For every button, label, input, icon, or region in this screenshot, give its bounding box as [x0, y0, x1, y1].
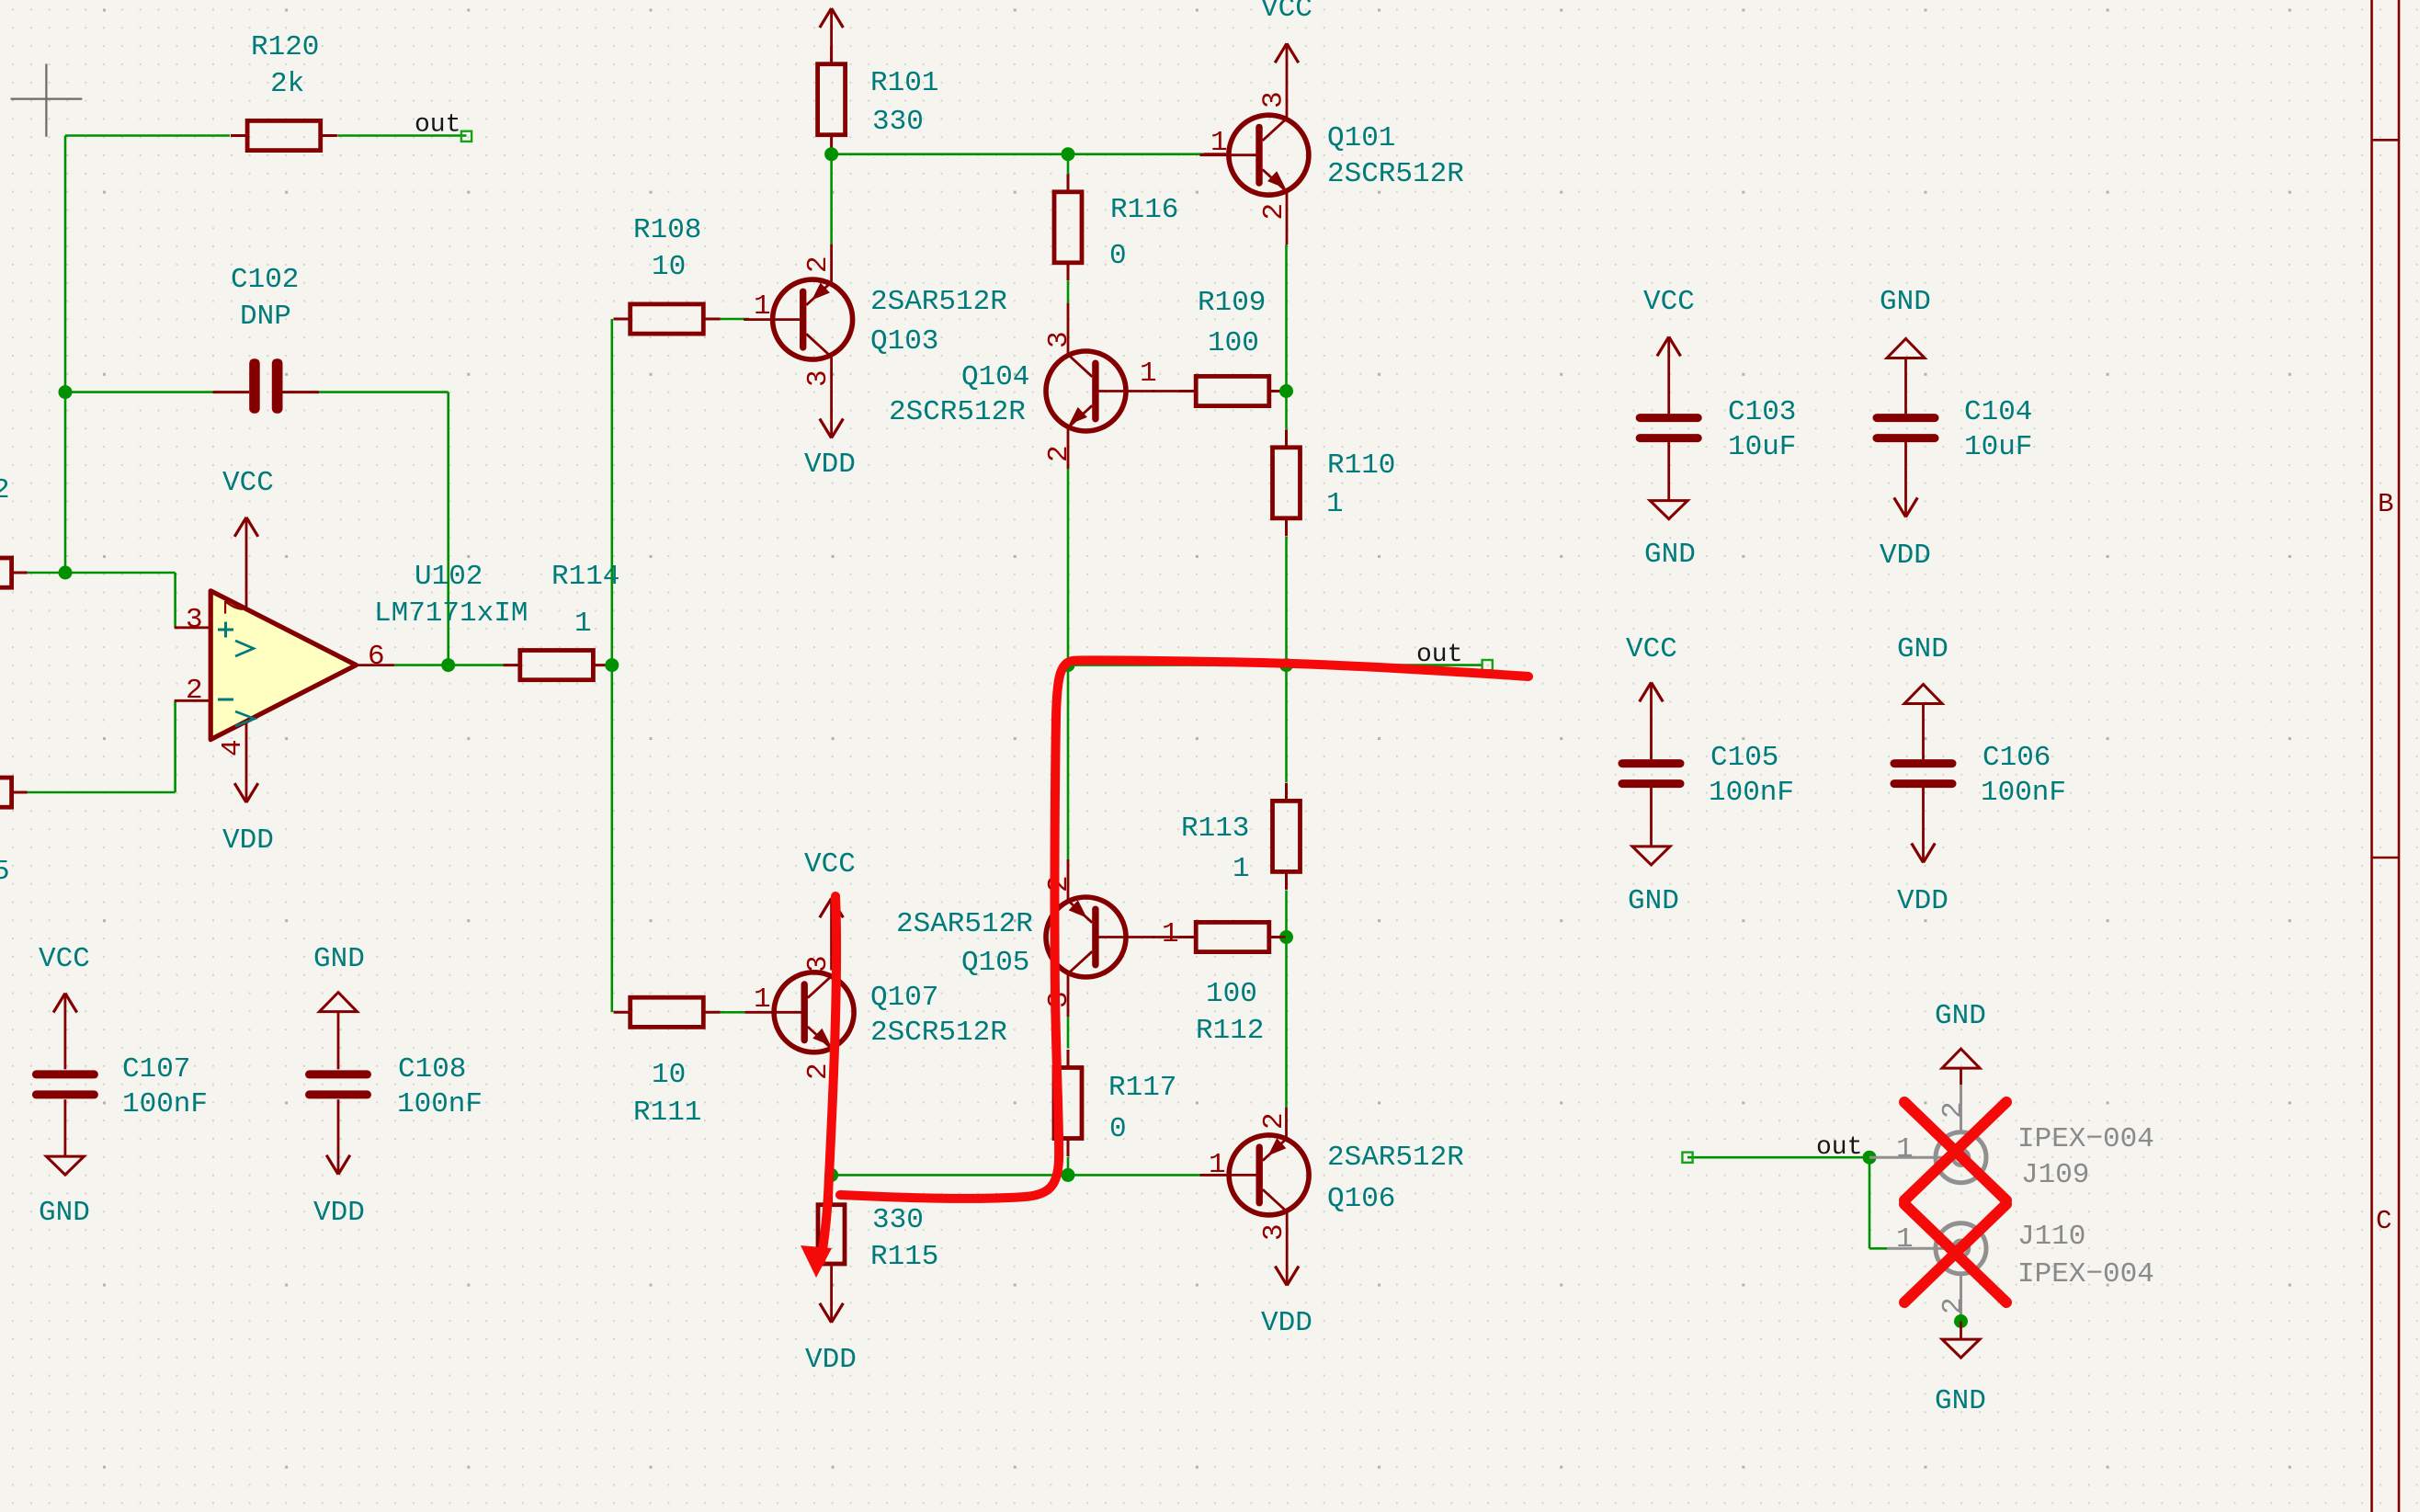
- svg-text:10uF: 10uF: [1728, 431, 1796, 463]
- resistor R114: [504, 651, 610, 680]
- wire R101 bottom to junction row: [830, 153, 833, 244]
- wire end square mid out: [1483, 660, 1493, 670]
- svg-text:100nF: 100nF: [1709, 777, 1794, 809]
- VCC power arrow (C105): [1640, 682, 1664, 701]
- svg-text:U102: U102: [415, 561, 483, 593]
- svg-text:R116: R116: [1110, 194, 1178, 226]
- svg-text:1: 1: [1896, 1133, 1914, 1165]
- ground symbol up (J109): [1942, 1049, 1980, 1085]
- wire Q105 collector down to R117: [1067, 973, 1070, 1049]
- transistor Q106 2SAR512R: [1200, 1135, 1310, 1215]
- wire end square (out J): [1682, 1153, 1692, 1163]
- capacitor C103: [1636, 336, 1702, 500]
- red annotation vertical stroke through Q107: [821, 896, 836, 1261]
- svg-text:R109: R109: [1198, 287, 1266, 319]
- svg-text:10: 10: [652, 1059, 686, 1091]
- svg-text:1: 1: [574, 608, 592, 640]
- svg-text:VCC: VCC: [1626, 633, 1677, 665]
- svg-text:100: 100: [1208, 327, 1259, 359]
- capacitor C107: [32, 994, 98, 1157]
- svg-text:3: 3: [1258, 91, 1290, 108]
- svg-text:Q101: Q101: [1327, 122, 1395, 154]
- svg-text:VCC: VCC: [39, 943, 90, 975]
- resistor R112: [1179, 922, 1286, 951]
- svg-text:GND: GND: [1935, 1385, 1986, 1417]
- transistor Q105 2SAR512R (mirrored): [1046, 897, 1155, 977]
- svg-text:2SCR512R: 2SCR512R: [870, 1017, 1007, 1049]
- ground symbol (C105): [1632, 847, 1670, 865]
- svg-text:out: out: [1416, 641, 1462, 669]
- VDD arrow down (C104): [1894, 497, 1918, 517]
- ground symbol down (J110): [1942, 1322, 1980, 1359]
- ground symbol (C103): [1650, 501, 1687, 519]
- svg-text:2: 2: [0, 474, 10, 506]
- Q104 collector pin up: [1067, 303, 1070, 355]
- VDD arrow down (C108): [326, 1155, 350, 1175]
- ground symbol up (C104): [1887, 339, 1925, 358]
- junction (71,623): [59, 566, 73, 580]
- resistor R120: [231, 120, 337, 150]
- svg-text:GND: GND: [313, 943, 365, 975]
- svg-text:100nF: 100nF: [397, 1088, 483, 1120]
- wire out row down to R113: [1285, 665, 1288, 783]
- wire Q104 base pin extension: [1153, 390, 1180, 392]
- svg-text:2SCR512R: 2SCR512R: [889, 396, 1026, 428]
- Q106 emitter pin up: [1285, 938, 1288, 1139]
- resistor R101: [818, 46, 846, 153]
- svg-text:GND: GND: [1628, 885, 1679, 917]
- svg-text:0: 0: [1109, 240, 1127, 272]
- Q103 emitter pin up: [830, 244, 833, 284]
- wire R116 bottom to Q104: [1067, 281, 1070, 303]
- VCC power arrow (C103): [1657, 336, 1681, 356]
- svg-text:IPEX−004: IPEX−004: [2017, 1123, 2154, 1155]
- red annotation path from out to VDD: [840, 660, 1528, 1198]
- transistor Q101 2SCR512R: [1199, 115, 1309, 195]
- wire bottom row: [832, 1174, 1204, 1177]
- svg-text:R108: R108: [633, 214, 701, 246]
- svg-text:C102: C102: [231, 264, 299, 296]
- svg-text:2: 2: [802, 256, 835, 273]
- sheet origin crosshair: [11, 64, 83, 137]
- svg-text:C103: C103: [1728, 396, 1796, 428]
- Q101 collector pin up with VCC arrow: [1275, 43, 1299, 119]
- resistor R117: [1054, 1050, 1082, 1156]
- svg-text:1: 1: [1896, 1223, 1914, 1256]
- svg-text:GND: GND: [1935, 1000, 1986, 1032]
- red annotation X over J109: [1904, 1102, 2006, 1200]
- wire opamp out: [394, 664, 505, 666]
- svg-text:VCC: VCC: [1261, 0, 1312, 25]
- svg-text:2: 2: [1258, 203, 1290, 221]
- svg-text:2: 2: [1258, 1112, 1290, 1130]
- svg-text:R110: R110: [1327, 449, 1395, 482]
- wire R108 to Q103 base: [721, 318, 750, 321]
- svg-text:10: 10: [652, 251, 686, 283]
- wire Q105 emitter up to out row: [1067, 665, 1070, 902]
- svg-text:VCC: VCC: [222, 467, 274, 499]
- connector J110 IPEX-004: [1887, 1223, 1986, 1322]
- wire net out1 left vertical: [28, 136, 449, 793]
- svg-text:C106: C106: [1983, 742, 2051, 774]
- red annotation arrowhead: [801, 1245, 832, 1278]
- junction (1162,1278.4): [1062, 1168, 1075, 1182]
- wire Q101 base pin: [1204, 153, 1226, 155]
- svg-text:C104: C104: [1964, 396, 2032, 428]
- VCC power arrow above R101: [820, 8, 844, 62]
- Q106 collector pin down with VDD arrow: [1275, 1211, 1299, 1285]
- svg-text:3: 3: [802, 369, 835, 387]
- svg-text:R111: R111: [633, 1097, 701, 1129]
- svg-text:Q105: Q105: [961, 947, 1029, 979]
- svg-text:2k: 2k: [270, 68, 304, 100]
- wire out to J109/J110: [1687, 1157, 1887, 1248]
- svg-text:1: 1: [1209, 1149, 1226, 1181]
- wire R111 to Q107 base: [721, 1011, 750, 1014]
- svg-text:VDD: VDD: [805, 1344, 857, 1376]
- capacitor C108: [305, 1012, 371, 1175]
- svg-text:1: 1: [1162, 918, 1179, 950]
- wire Q106 base pin: [1204, 1174, 1226, 1177]
- U102 pin 7 VCC power arrow: [234, 517, 258, 537]
- junction (1399.5,1019.5): [1279, 930, 1293, 944]
- svg-text:R120: R120: [251, 31, 319, 63]
- svg-text:2SAR512R: 2SAR512R: [1327, 1142, 1464, 1174]
- ground symbol (C107): [46, 1156, 84, 1175]
- svg-text:1: 1: [1140, 358, 1157, 390]
- svg-text:VDD: VDD: [1897, 885, 1948, 917]
- resistor R108: [614, 304, 721, 334]
- svg-text:2SCR512R: 2SCR512R: [1327, 158, 1464, 190]
- svg-text:GND: GND: [1897, 633, 1948, 665]
- wire end square top out: [461, 131, 472, 142]
- wire out top: [337, 134, 466, 137]
- ground symbol up (C108): [320, 993, 358, 1012]
- svg-text:2: 2: [1937, 1297, 1970, 1314]
- junction (1162,167.7): [1062, 147, 1075, 161]
- capacitor C105: [1619, 682, 1685, 847]
- resistor R115: [818, 1175, 845, 1264]
- svg-text:2SAR512R: 2SAR512R: [896, 908, 1033, 940]
- svg-text:C107: C107: [122, 1053, 190, 1086]
- svg-text:1: 1: [1233, 853, 1250, 885]
- transistor Q107 2SCR512R: [745, 972, 855, 1052]
- wire Q105 base pin extension: [1153, 936, 1180, 938]
- svg-text:VDD: VDD: [222, 824, 274, 857]
- wire Q101 emitter down to R110: [1285, 244, 1288, 429]
- svg-text:GND: GND: [1644, 539, 1696, 571]
- ground symbol up (C106): [1904, 685, 1942, 704]
- svg-text:J110: J110: [2017, 1221, 2085, 1253]
- junction (665.8,723.6): [605, 658, 619, 672]
- VCC power arrow (C107): [53, 994, 77, 1013]
- svg-text:3: 3: [186, 604, 203, 636]
- svg-text:7: 7: [220, 598, 252, 616]
- svg-text:2: 2: [1043, 445, 1075, 462]
- resistor R113: [1273, 783, 1301, 890]
- svg-text:3: 3: [802, 955, 835, 972]
- svg-text:330: 330: [872, 1204, 924, 1236]
- svg-text:VDD: VDD: [804, 449, 856, 481]
- svg-text:10uF: 10uF: [1964, 431, 2032, 463]
- svg-text:C105: C105: [1710, 742, 1778, 774]
- svg-text:C: C: [2376, 1206, 2392, 1236]
- svg-text:1: 1: [1326, 488, 1344, 520]
- sheet frame right border: [2372, 0, 2400, 1512]
- svg-text:R117: R117: [1108, 1072, 1176, 1104]
- svg-text:3: 3: [1258, 1223, 1290, 1241]
- svg-text:Q107: Q107: [870, 982, 938, 1014]
- svg-text:Q106: Q106: [1327, 1183, 1395, 1215]
- wire R117 bottom to bottom row: [1067, 1157, 1070, 1176]
- Q101 emitter pin down: [1286, 192, 1289, 244]
- svg-text:GND: GND: [39, 1197, 90, 1229]
- junction (71,426.6): [59, 385, 73, 399]
- transistor Q104 2SCR512R (mirrored): [1046, 351, 1155, 431]
- svg-text:0: 0: [1109, 1113, 1127, 1145]
- svg-text:R114: R114: [551, 561, 619, 593]
- svg-text:2: 2: [186, 675, 203, 707]
- resistor partial lower-left edge: [0, 778, 28, 807]
- wire Q104 emitter down to out row: [1067, 427, 1070, 665]
- svg-text:3: 3: [1043, 331, 1075, 348]
- svg-text:Q103: Q103: [870, 325, 938, 358]
- VDD arrow down (C106): [1912, 843, 1936, 862]
- svg-text:C108: C108: [398, 1053, 466, 1086]
- wire out row middle: [1068, 664, 1483, 666]
- svg-text:5: 5: [0, 856, 10, 888]
- VDD power arrow below R115: [820, 1266, 844, 1322]
- svg-text:100nF: 100nF: [1981, 777, 2066, 809]
- svg-text:R101: R101: [870, 67, 938, 99]
- wire R114 to long vertical: [610, 319, 612, 1012]
- svg-text:1: 1: [754, 290, 771, 323]
- svg-text:GND: GND: [1880, 286, 1931, 318]
- svg-text:6: 6: [368, 641, 385, 673]
- junction (2133.5,1437.5): [1954, 1314, 1968, 1328]
- svg-text:VCC: VCC: [804, 848, 856, 881]
- junction (904.6,167.7): [824, 147, 838, 161]
- Q107 emitter pin down: [830, 1049, 833, 1175]
- svg-text:J109: J109: [2021, 1159, 2089, 1191]
- U102 pin 4 VDD power arrow: [234, 783, 258, 802]
- svg-text:330: 330: [872, 106, 924, 138]
- svg-text:2SAR512R: 2SAR512R: [870, 286, 1007, 318]
- wire R113 bottom to R112 junction: [1285, 891, 1288, 938]
- svg-text:1: 1: [1210, 127, 1228, 159]
- junction (904.6,1278.4): [824, 1168, 838, 1182]
- svg-text:R113: R113: [1181, 813, 1249, 845]
- svg-text:100: 100: [1206, 978, 1257, 1010]
- transistor Q103 2SAR512R: [744, 279, 853, 359]
- Q103 collector pin down with VDD arrow: [820, 355, 844, 438]
- resistor R110: [1273, 429, 1301, 536]
- svg-text:B: B: [2378, 489, 2393, 519]
- svg-text:out: out: [1816, 1133, 1862, 1162]
- capacitor C102: [213, 358, 320, 414]
- resistor partial upper-left edge: [0, 558, 28, 587]
- svg-text:2: 2: [1043, 875, 1075, 892]
- svg-text:100nF: 100nF: [122, 1088, 208, 1120]
- svg-text:VDD: VDD: [313, 1197, 365, 1229]
- junction (487.7,723.6): [441, 658, 455, 672]
- connector J109 IPEX-004: [1869, 1085, 1986, 1183]
- svg-text:LM7171xIM: LM7171xIM: [374, 597, 528, 630]
- svg-text:Q104: Q104: [961, 361, 1029, 393]
- resistor R109: [1179, 376, 1286, 405]
- svg-text:VDD: VDD: [1261, 1307, 1312, 1339]
- VCC power arrow above Q107: [820, 898, 844, 970]
- op-amp U102: [175, 517, 395, 802]
- capacitor C104: [1873, 358, 1939, 517]
- svg-text:2: 2: [1937, 1101, 1970, 1119]
- svg-text:R112: R112: [1196, 1015, 1264, 1047]
- resistor R111: [614, 997, 721, 1027]
- svg-text:IPEX−004: IPEX−004: [2017, 1258, 2154, 1290]
- svg-text:VDD: VDD: [1880, 540, 1931, 572]
- junction (1399.5,425.5): [1279, 384, 1293, 398]
- wire R110 bottom to out row: [1285, 537, 1288, 665]
- svg-text:1: 1: [754, 983, 771, 1016]
- svg-text:R115: R115: [870, 1241, 938, 1273]
- svg-text:out: out: [415, 111, 460, 140]
- junction (1399.5,723.6): [1279, 658, 1293, 672]
- resistor R116: [1054, 174, 1082, 280]
- capacitor C106: [1891, 704, 1957, 863]
- svg-text:DNP: DNP: [240, 301, 291, 333]
- junction (1162,723.6): [1062, 658, 1075, 672]
- svg-text:4: 4: [217, 739, 249, 756]
- wire junction row to Q101: [832, 153, 1204, 155]
- svg-text:VCC: VCC: [1643, 286, 1695, 318]
- wire junction to R116 top: [1067, 154, 1070, 175]
- junction (2034,1259.2): [1863, 1151, 1877, 1165]
- red annotation X over J110: [1904, 1204, 2006, 1302]
